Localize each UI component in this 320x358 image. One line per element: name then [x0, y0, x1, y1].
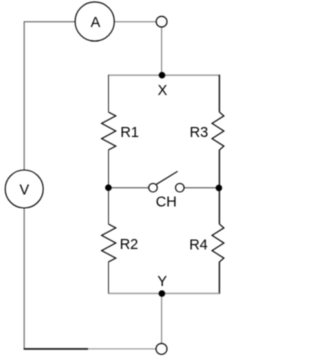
- wire right branch lower stub: [218, 262, 220, 294]
- svg-text:X: X: [158, 83, 168, 99]
- wire left branch upper stub: [108, 75, 110, 112]
- terminal top (open circle): [156, 16, 167, 27]
- resistor R4: [189, 224, 224, 262]
- node junction left (bridge mid left): [105, 184, 112, 191]
- wire left branch middle stub: [108, 150, 110, 224]
- ammeter A1: [75, 2, 114, 41]
- resistor R2: [102, 224, 139, 262]
- wire middle right (switch to junction): [184, 187, 219, 189]
- wire top bridge horizontal: [109, 74, 220, 76]
- wire left rail lower (voltmeter to bottom corner): [23, 208, 25, 350]
- svg-text:V: V: [19, 182, 29, 198]
- wire bottom bridge horizontal: [109, 292, 220, 294]
- terminal bottom (open circle): [156, 343, 167, 354]
- svg-text:CH: CH: [156, 194, 177, 210]
- wire left rail upper (top corner to voltmeter): [23, 21, 25, 170]
- wire middle left (junction to switch): [108, 187, 148, 189]
- svg-text:Y: Y: [157, 274, 167, 290]
- wire right branch middle stub: [218, 150, 220, 224]
- wire node Y down to bottom terminal: [161, 293, 163, 343]
- node X junction dot: [159, 72, 166, 79]
- resistor R3: [190, 112, 224, 150]
- wire ammeter to top terminal: [114, 21, 156, 23]
- resistor R1: [102, 112, 139, 150]
- node junction right (bridge mid right): [216, 185, 223, 192]
- svg-text:R1: R1: [120, 125, 139, 141]
- wire right branch upper stub: [218, 75, 220, 112]
- voltmeter V1: [5, 170, 43, 208]
- svg-text:R3: R3: [190, 125, 209, 141]
- svg-text:R4: R4: [189, 237, 208, 253]
- wire left branch lower stub: [108, 262, 110, 294]
- switch CH: [149, 171, 184, 210]
- svg-text:R2: R2: [120, 237, 139, 253]
- wire top terminal down to node X: [161, 27, 163, 75]
- wire bottom horizontal dark segment: [24, 348, 88, 350]
- svg-text:A: A: [91, 15, 101, 31]
- wire top-left horizontal from left rail to ammeter: [24, 21, 75, 23]
- node Y junction dot: [159, 290, 166, 297]
- wire bottom horizontal light segment to bottom terminal: [88, 348, 156, 350]
